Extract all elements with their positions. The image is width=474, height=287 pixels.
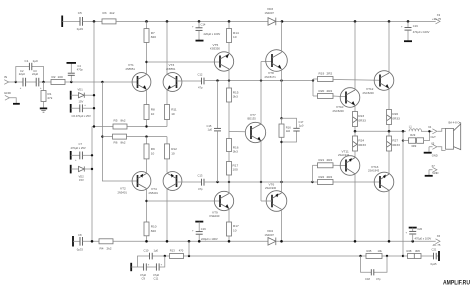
wire: VT2 base feed vertical: [102, 82, 137, 181]
resistor R18 (10, VT9 emitter): [227, 209, 239, 242]
svg-text:VD4: VD4: [267, 229, 273, 233]
svg-text:470p: 470p: [77, 68, 83, 72]
wire: bottom rail VD4 to X6 arrow: [276, 240, 436, 242]
node: VT2 base feed junction: [101, 81, 103, 83]
wire: stub rail to feedback line: [188, 241, 190, 256]
resistor R21 (2R2): [313, 158, 347, 182]
wire: VT8 base horizontal: [261, 61, 272, 63]
svg-text:IN: IN: [4, 75, 7, 79]
wire: vertical V2 to bottom rail: [91, 127, 93, 242]
svg-text:2N5551: 2N5551: [166, 67, 176, 71]
wire: C11 riser to feedback line: [159, 256, 165, 267]
svg-text:C11: C11: [154, 277, 159, 281]
capacitor C9 (47u0): [140, 263, 150, 280]
diode VD2 (15V): [71, 165, 94, 182]
svg-text:R6: R6: [114, 141, 118, 145]
svg-text:GND: GND: [432, 154, 438, 158]
svg-text:2k2: 2k2: [110, 11, 115, 15]
ground (X2): [13, 103, 20, 105]
resistor R22 (2R2): [313, 175, 381, 184]
terminal bar (top-left, C5 input): [61, 16, 63, 28]
svg-text:1µ0: 1µ0: [154, 248, 159, 252]
svg-text:R16: R16: [286, 125, 291, 129]
svg-text:R22: R22: [319, 175, 325, 179]
resistor R20 (2R2): [313, 81, 346, 99]
svg-text:1N4007: 1N4007: [265, 233, 275, 237]
transistor VT8 (2SC5171 driver): [265, 50, 288, 79]
wire: vertical V1 from top rail: [93, 21, 95, 126]
svg-text:C16: C16: [201, 227, 206, 231]
node: C4 junction: [70, 81, 72, 83]
svg-text:470µ0 x 25V: 470µ0 x 25V: [71, 146, 86, 150]
capacitor C6 (470u x 25V): [71, 104, 96, 118]
svg-text:0µ15: 0µ15: [431, 262, 438, 266]
svg-text:C2: C2: [20, 69, 24, 73]
wire: [131, 266, 143, 268]
svg-text:VT8: VT8: [268, 71, 274, 75]
wire: VT6 base horizontal: [261, 200, 272, 202]
svg-text:C14: C14: [201, 23, 206, 27]
transistor VT10 (2SC5200): [333, 88, 360, 113]
svg-text:KSE350: KSE350: [210, 46, 220, 50]
resistor R27 (0R33): [387, 131, 401, 173]
svg-text:R2: R2: [52, 75, 56, 79]
svg-text:C19: C19: [413, 24, 418, 28]
ground (R1): [40, 108, 47, 112]
resistor R26z (3R6 zobel): [403, 249, 433, 259]
diode VD4: [265, 229, 276, 245]
svg-text:2R2: 2R2: [327, 175, 333, 179]
svg-text:VT4: VT4: [151, 187, 157, 191]
svg-text:R12: R12: [171, 147, 177, 151]
wire: VT1 collector to VT5 base: [147, 61, 221, 63]
wire: [83, 20, 103, 22]
svg-text:C4: C4: [77, 64, 81, 68]
svg-text:10: 10: [151, 151, 155, 155]
speaker BA (4-8 Ohm): [446, 120, 462, 149]
node: R6 tap: [101, 135, 103, 137]
wire: VT11 collector to bottom rail: [354, 174, 356, 242]
svg-text:R21: R21: [319, 158, 325, 162]
resistor R29 (3R9, parallel with L1): [402, 131, 430, 148]
svg-text:R3: R3: [103, 11, 107, 15]
resistor R24 (0R33): [353, 131, 367, 157]
svg-text:220µ0 x 100V: 220µ0 x 100V: [204, 32, 221, 36]
wire: VT7 base: [229, 131, 246, 133]
ground (C19): [404, 40, 412, 42]
svg-text:47µ0: 47µ0: [153, 273, 160, 277]
svg-text:X3: X3: [437, 13, 441, 17]
node: C17 top tap: [280, 117, 282, 119]
capacitor C16 (220u x 100V): [192, 222, 218, 242]
svg-text:R8: R8: [151, 108, 155, 112]
wire: VT10 collector to rail: [354, 21, 356, 90]
svg-text:2SA1943: 2SA1943: [338, 153, 350, 157]
junction dots on top rail: [145, 20, 148, 23]
svg-text:470: 470: [179, 248, 184, 252]
diode VD1 (15V): [71, 88, 96, 104]
svg-text:BD135: BD135: [248, 116, 257, 120]
svg-text:R24: R24: [358, 139, 364, 143]
svg-text:3k3: 3k3: [233, 150, 238, 154]
wire: node B (tail of bottom pair) + R6 feed: [102, 136, 167, 138]
resistor R12 (10): [165, 137, 178, 173]
svg-text:47k: 47k: [47, 96, 52, 100]
resistor R14 (10, VT5 emitter): [227, 21, 239, 53]
svg-text:R26: R26: [392, 112, 398, 116]
capacitor C5: [77, 11, 84, 31]
ground (C14): [196, 40, 204, 42]
capacitor C15 (between mid lines): [207, 81, 222, 182]
svg-text:22µ0: 22µ0: [32, 72, 39, 76]
svg-text:R11: R11: [171, 108, 177, 112]
svg-text:C9: C9: [142, 277, 146, 281]
svg-text:2N5401: 2N5401: [118, 191, 128, 195]
wire: to X4: [421, 130, 433, 132]
svg-text:0µ33: 0µ33: [77, 248, 84, 252]
svg-text:C18: C18: [365, 277, 370, 281]
terminal bar (feedback ground): [130, 263, 132, 271]
svg-text:KSE340: KSE340: [210, 214, 220, 218]
svg-text:C7: C7: [79, 142, 83, 146]
svg-text:470µ0 x 100V: 470µ0 x 100V: [415, 236, 432, 240]
svg-text:2R2: 2R2: [327, 158, 333, 162]
capacitor C20 (470u x 100V): [406, 227, 432, 241]
svg-text:0µ33: 0µ33: [77, 27, 84, 31]
resistor R11 (10): [165, 90, 177, 127]
svg-text:220µ0 x 100V: 220µ0 x 100V: [201, 237, 218, 241]
capacitor C12 (47p): [177, 73, 205, 90]
wire: [65, 81, 138, 83]
svg-text:820: 820: [151, 229, 156, 233]
diode VD3: [265, 7, 276, 25]
svg-text:47µ0: 47µ0: [140, 273, 147, 277]
svg-text:AMPLIF.RU: AMPLIF.RU: [443, 280, 470, 287]
wire: feedback tap from output: [402, 131, 404, 256]
node: feedback/output tap: [402, 255, 404, 257]
wire: output rail: [355, 130, 406, 132]
resistor R4: [99, 239, 113, 251]
resistor R8 (10): [144, 90, 155, 127]
capacitor C7 (470u x 25V): [71, 142, 94, 162]
transistor VT7 (BD135 bias): [245, 113, 265, 143]
svg-text:10k: 10k: [378, 249, 383, 253]
wire: VT8 base riser + VT7 collector: [260, 62, 262, 125]
svg-text:C1: C1: [25, 59, 29, 63]
svg-text:VT2: VT2: [120, 187, 126, 191]
transistor VT13 (2SA1943): [368, 165, 394, 192]
svg-text:VT3: VT3: [169, 63, 175, 67]
svg-text:C10: C10: [144, 248, 149, 252]
svg-text:0R33: 0R33: [358, 143, 366, 147]
svg-text:470µ0 x 100V: 470µ0 x 100V: [413, 30, 430, 34]
svg-text:0R33: 0R33: [358, 119, 366, 123]
svg-text:3k3: 3k3: [233, 95, 238, 99]
resistor R25 (10k feedback): [366, 249, 403, 259]
svg-text:C6 470µ0 x 25V: C6 470µ0 x 25V: [72, 114, 92, 118]
capacitor C3: [26, 69, 51, 90]
svg-text:VT6: VT6: [269, 182, 275, 186]
wire: VT9 collector to lower mid line: [228, 182, 230, 194]
wire: X4 to speaker: [437, 128, 445, 131]
svg-text:X4: X4: [428, 125, 432, 129]
connector X4 OuT: [428, 125, 437, 139]
wire: VT13 collector to bottom rail: [388, 190, 390, 241]
resistor R19 (2R2): [313, 71, 380, 81]
capacitor C14 (220u x 100V): [192, 21, 220, 40]
svg-text:8k2: 8k2: [121, 141, 126, 145]
svg-text:C21: C21: [432, 247, 437, 251]
svg-text:R19: R19: [319, 71, 325, 75]
svg-text:R28: R28: [407, 249, 412, 253]
svg-text:VT9: VT9: [212, 210, 218, 214]
resistor R6 (8k2): [113, 134, 127, 144]
svg-text:C3: C3: [33, 69, 37, 73]
transistor VT2 (2N5401): [118, 172, 151, 195]
svg-text:2R2: 2R2: [327, 71, 333, 75]
wire: VT7 emitter down / VT6 base riser: [260, 141, 262, 201]
wire: VT12 collector to rail: [388, 21, 390, 73]
svg-text:10: 10: [233, 228, 237, 232]
svg-text:VT1: VT1: [128, 63, 134, 67]
connector X5 GND (speaker return): [424, 141, 446, 157]
wire: feedback line: [153, 255, 170, 257]
resistor R3: [102, 11, 116, 24]
svg-text:3R6: 3R6: [415, 249, 420, 253]
svg-text:GND: GND: [4, 91, 12, 95]
svg-text:VT5: VT5: [213, 43, 219, 47]
wire: lower mid line (VAS bottom net): [204, 181, 313, 183]
transistor VT12 (2SC5200): [363, 71, 394, 95]
svg-text:2SC5200: 2SC5200: [363, 91, 375, 95]
svg-text:R13: R13: [170, 248, 175, 252]
wire: to VT9 base: [147, 200, 221, 202]
wire: VT3 collector to rail: [166, 21, 168, 74]
resistor R7 (820, VT1 collector load): [144, 21, 156, 74]
svg-text:OuT: OuT: [431, 135, 437, 139]
svg-text:1µ0: 1µ0: [299, 123, 304, 127]
svg-text:VT13: VT13: [371, 165, 379, 169]
capacitor C2: [16, 69, 26, 90]
junction dots on bottom rail: [145, 240, 148, 243]
node: VT2 collector / VT9 base: [145, 200, 147, 202]
svg-text:100: 100: [58, 75, 63, 79]
wire: [73, 240, 80, 242]
svg-text:15V: 15V: [79, 100, 84, 104]
svg-text:47p: 47p: [376, 277, 381, 281]
svg-text:C17: C17: [299, 120, 304, 124]
connector X2 GND: [4, 91, 16, 103]
capacitor C4 (470p to shield): [67, 63, 84, 82]
svg-text:10: 10: [151, 112, 155, 116]
capacitor C13 (47p): [177, 174, 205, 191]
terminal bar (bottom-left, C8): [72, 236, 74, 247]
svg-text:22µ0: 22µ0: [19, 72, 26, 76]
wire: VT8 collector to rail: [281, 21, 283, 52]
svg-text:VT11: VT11: [342, 149, 349, 153]
node: input: [15, 81, 17, 83]
node: C17 bottom tap: [280, 141, 282, 143]
svg-text:C12: C12: [198, 73, 203, 77]
svg-text:VD2: VD2: [79, 175, 85, 179]
svg-text:2SA1943: 2SA1943: [368, 168, 380, 172]
wire: top rail VD3 to X3 arrow: [276, 20, 436, 22]
transistor VT3 (2N5551, mirrored): [163, 63, 182, 91]
svg-text:VT10: VT10: [336, 105, 344, 109]
svg-text:VD1: VD1: [78, 88, 84, 92]
svg-text:R29: R29: [410, 133, 415, 137]
wire: VT2 collector down: [146, 189, 148, 223]
transistor VT5 (KSE350): [210, 43, 234, 71]
wire: VT6 collector to bottom rail: [281, 209, 283, 241]
svg-text:VD3: VD3: [267, 7, 273, 11]
svg-text:820: 820: [151, 35, 156, 39]
svg-text:C13: C13: [198, 174, 203, 178]
svg-text:2R2: 2R2: [327, 89, 333, 93]
wire: [62, 20, 80, 22]
wire: VT4 collector to bottom rail: [166, 189, 168, 242]
resistor R17 (100, bias chain bottom): [227, 162, 239, 183]
wire: VT8 emitter to mid: [281, 69, 283, 118]
connector X1 IN: [4, 75, 16, 84]
svg-text:X6: X6: [437, 234, 441, 238]
svg-text:10: 10: [171, 112, 175, 116]
svg-text:10: 10: [233, 35, 237, 39]
resistor R5 (8k2): [113, 119, 127, 130]
svg-text:VT7: VT7: [250, 113, 256, 117]
svg-text:R25: R25: [367, 249, 372, 253]
svg-text:R9: R9: [151, 147, 155, 151]
resistor R23 (0R33): [353, 112, 367, 132]
svg-text:2N5401: 2N5401: [149, 191, 159, 195]
transistor VT1 (2N5551): [126, 63, 151, 91]
svg-text:L1: L1: [409, 124, 412, 128]
node: C3/R1: [42, 81, 44, 83]
capacitor C18 (47p, parallel R25): [361, 256, 388, 281]
svg-text:10: 10: [171, 151, 175, 155]
resistor R9 (10): [144, 137, 155, 173]
node: C5/R3 junction: [93, 20, 96, 23]
svg-text:R23: R23: [358, 114, 364, 118]
svg-text:C20: C20: [417, 227, 422, 231]
capacitor C21 (0u15 zobel): [431, 247, 439, 265]
transistor VT4 (2N5401, mirrored): [149, 172, 182, 195]
transistor VT11 (2SA1943): [338, 149, 360, 175]
resistor R26 (0R33): [387, 110, 401, 132]
wire: top rail to VD3: [116, 20, 268, 22]
wire: VT12 emitter: [388, 88, 390, 109]
svg-text:3R9: 3R9: [411, 144, 416, 148]
svg-text:2SC5171: 2SC5171: [265, 75, 277, 79]
resistor R16a (1k0 driver mid): [279, 118, 291, 182]
resistor R15 (3k3, bias chain top): [227, 81, 239, 139]
svg-text:-36..75: -36..75: [432, 243, 441, 247]
capacitor C8: [77, 233, 84, 251]
wire: [146, 266, 156, 268]
svg-text:1µ0: 1µ0: [208, 128, 213, 132]
connector X3 (+36..75): [432, 13, 442, 24]
svg-text:R5: R5: [114, 119, 118, 123]
wire: [83, 240, 100, 242]
svg-text:+36..75: +36..75: [432, 17, 442, 21]
capacitor C10 (1u0): [138, 248, 159, 267]
svg-text:C8: C8: [78, 233, 82, 237]
inductor L1: [409, 124, 422, 131]
svg-text:R27: R27: [392, 139, 398, 143]
svg-text:C15: C15: [207, 124, 212, 128]
node: VT1 collector / VT5 base: [145, 61, 147, 63]
resistor R16 (2k7, bias chain mid): [227, 139, 239, 162]
svg-text:R4: R4: [100, 247, 104, 251]
svg-text:1k0: 1k0: [286, 129, 291, 133]
svg-text:VT12: VT12: [366, 87, 374, 91]
node: C8/R4 junction: [91, 240, 94, 243]
svg-text:X7: X7: [432, 164, 436, 168]
svg-text:100: 100: [233, 168, 238, 172]
svg-text:0R33: 0R33: [392, 143, 400, 147]
svg-text:2k2: 2k2: [107, 247, 112, 251]
svg-text:15V: 15V: [79, 178, 84, 182]
svg-text:2N5551: 2N5551: [126, 67, 136, 71]
svg-text:GND: GND: [433, 171, 439, 175]
svg-text:C5: C5: [78, 11, 82, 15]
capacitor C19 (470u x 100V): [401, 21, 430, 40]
resistor R10 (820, VT2 collector load): [144, 222, 157, 241]
svg-text:1µ0: 1µ0: [33, 59, 39, 63]
capacitor C1 (bypass loop): [16, 59, 44, 82]
svg-text:8k2: 8k2: [121, 119, 126, 123]
svg-text:47p: 47p: [198, 187, 203, 191]
svg-text:R20: R20: [319, 89, 325, 93]
capacitor C17 (1u0, parallel): [282, 118, 304, 142]
svg-text:47p: 47p: [198, 86, 203, 90]
resistor R1 (47k to ground): [41, 82, 53, 108]
svg-text:2SC5200: 2SC5200: [333, 109, 345, 113]
wire: upper mid line (VAS top net): [204, 80, 313, 82]
svg-text:1N4007: 1N4007: [265, 11, 275, 15]
connector X6 (-36..75): [432, 234, 441, 247]
svg-text:BA 4-8 Ом: BA 4-8 Ом: [449, 120, 462, 124]
resistor R2: [51, 75, 65, 85]
transistor VT6 (2SA1930 driver): [265, 182, 287, 211]
wire: VT6 emitter up: [281, 182, 283, 193]
svg-text:2SA1930: 2SA1930: [265, 186, 277, 190]
wire: VT5 collector to upper mid line: [228, 69, 230, 81]
wire: bottom rail to VD4: [113, 240, 268, 242]
connector X7 GND: [425, 164, 439, 176]
wire: node A (tail of top pair) + R5 feed: [92, 126, 167, 128]
svg-text:0R33: 0R33: [392, 117, 400, 121]
capacitor C11 (47u0): [153, 263, 163, 280]
resistor R13 (470): [170, 248, 184, 258]
terminal bar (zobel end): [438, 251, 440, 261]
wire: VT10 emitter: [354, 105, 356, 111]
transistor VT9 (KSE340): [210, 191, 234, 218]
